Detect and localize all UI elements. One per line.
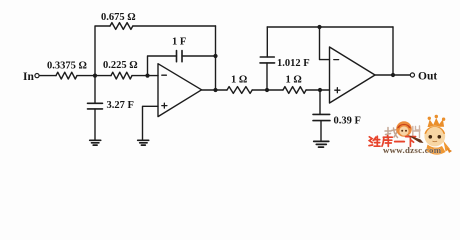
wire 3.27 F to ground G1 [94, 109, 96, 140]
watermark small head circle [396, 121, 412, 137]
wire U2 output [375, 74, 393, 76]
resistor 1 ohm (first) [227, 87, 252, 94]
capacitor 3.27 F [88, 103, 103, 109]
svg-text:1 F: 1 F [172, 36, 186, 47]
junction 1F line / feedback drop [213, 54, 217, 58]
hanzi xia [406, 137, 416, 147]
svg-text:1 Ω: 1 Ω [286, 75, 302, 86]
watermark mascot body [426, 145, 446, 155]
op-amp U1 plus pin mark [162, 103, 167, 108]
wire R4 to node D [306, 89, 320, 91]
svg-text:1 Ω: 1 Ω [231, 75, 247, 86]
wire U1 output to R3 [216, 89, 228, 91]
watermark mascot crown [428, 118, 445, 127]
resistor 0.225 ohm [111, 72, 132, 79]
watermark faint top text hanzi "pian" (drawn strokes) [413, 126, 420, 138]
watermark dzsc.com logo [369, 115, 452, 155]
wire R3 to node C [252, 89, 267, 91]
wire top feedback line 2 [267, 26, 393, 28]
capacitor 1 F [177, 51, 183, 62]
wire U1 plus input to ground G2 [143, 106, 159, 140]
svg-text:In: In [23, 71, 34, 83]
wire node A down to capacitor 3.27 F [94, 76, 96, 103]
op-amp U1 triangle [158, 64, 202, 117]
wire 1.012 F up to top feedback line 2 [266, 27, 268, 57]
svg-text:0.675 Ω: 0.675 Ω [101, 12, 136, 23]
wire feedback drop to U2 output node [392, 27, 394, 75]
hanzi yi [395, 141, 404, 143]
resistor 0.3375 ohm [56, 72, 77, 79]
resistor 0.675 ohm [110, 23, 133, 30]
node D junction [318, 88, 322, 92]
svg-text:0.3375 Ω: 0.3375 Ω [47, 61, 87, 72]
node B junction [145, 74, 149, 78]
wire In to R1 [40, 75, 56, 77]
svg-text:www.dzsc.com: www.dzsc.com [383, 145, 442, 155]
wire U2 minus input jog [320, 27, 330, 60]
svg-text:0.39 F: 0.39 F [334, 116, 361, 127]
wire node B up to 1 F line [148, 56, 177, 76]
wire node C to R4 [267, 89, 283, 91]
node C junction [265, 88, 269, 92]
wire vertical feedback drop to U1 output node [215, 26, 217, 90]
watermark faint top text hanzi "zhao" (drawn strokes) [385, 128, 398, 140]
op-amp U1 minus pin mark [162, 74, 167, 76]
wire 1 F to feedback drop [182, 55, 216, 57]
wire R2 to node B [132, 75, 148, 77]
svg-text:Out: Out [418, 70, 437, 82]
resistor 1 ohm (second) [283, 87, 306, 94]
watermark arrow swoosh [407, 135, 424, 144]
capacitor 1.012 F [260, 57, 275, 63]
wire node D to op-amp U2 plus input [320, 89, 330, 91]
wire 0.39 F to ground G3 [320, 121, 322, 141]
wire U1 output [202, 89, 216, 91]
wire node A to R2 [95, 75, 111, 77]
capacitor 0.39 F [313, 114, 330, 120]
wire R1 to node A [77, 75, 95, 77]
hanzi wei [369, 137, 373, 146]
U1 output node junction [213, 88, 217, 92]
output terminal Out [410, 73, 414, 77]
wire 0.675 ohm to right top corner [133, 25, 216, 27]
wire node D down to capacitor 0.39 F [319, 90, 321, 114]
ground G3 [314, 141, 329, 147]
watermark red text wei-ku-yi-xia (drawn strokes) [369, 136, 416, 147]
op-amp U2 plus pin mark [335, 88, 340, 93]
svg-text:1.012 F: 1.012 F [277, 58, 310, 69]
op-amp U2 triangle [330, 47, 376, 103]
op-amp U2 minus pin mark [334, 59, 339, 61]
svg-text:0.225 Ω: 0.225 Ω [103, 60, 138, 71]
svg-text:3.27 F: 3.27 F [107, 100, 134, 111]
watermark mascot face [424, 126, 445, 147]
input terminal In [35, 74, 39, 78]
ground G1 [90, 140, 101, 145]
U2 output node junction [391, 73, 395, 77]
ground G2 [138, 140, 149, 145]
wire node A up to top feedback line [95, 26, 110, 76]
wire node B to op-amp U1 inverting input [148, 75, 159, 77]
wire node C up to capacitor 1.012 F [266, 63, 268, 90]
junction top line 2 / U2 minus branch [317, 25, 321, 29]
node A junction [93, 74, 97, 78]
wire to Out terminal [393, 74, 410, 76]
hanzi ku [382, 136, 392, 147]
